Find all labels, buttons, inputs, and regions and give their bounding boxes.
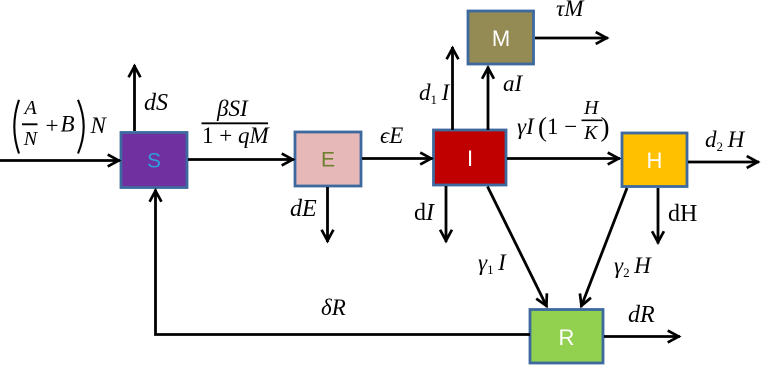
wire E to I arrow bbox=[362, 157, 433, 160]
svg-text:R: R bbox=[559, 325, 575, 350]
label beta S I over 1 + q M bbox=[202, 96, 271, 148]
svg-text:H: H bbox=[583, 97, 600, 119]
svg-text:γ1 I: γ1 I bbox=[478, 250, 507, 277]
wire gamma2 H diagonal arrow from H to R bbox=[581, 188, 627, 307]
svg-text:S: S bbox=[147, 150, 161, 173]
svg-text:τM: τM bbox=[556, 0, 585, 21]
svg-text:dH: dH bbox=[668, 201, 697, 227]
wire aI up arrow from I to M bbox=[487, 67, 490, 131]
wire tauM arrow from M bbox=[535, 37, 608, 40]
svg-text:γ2 H: γ2 H bbox=[614, 253, 652, 280]
svg-text:K: K bbox=[583, 122, 599, 144]
svg-text:δR: δR bbox=[321, 295, 346, 320]
wire S to E arrow bbox=[188, 158, 294, 161]
svg-text:γI: γI bbox=[517, 114, 535, 139]
svg-text:N: N bbox=[23, 128, 39, 150]
svg-text:E: E bbox=[321, 149, 335, 172]
svg-text:M: M bbox=[492, 26, 510, 51]
box M bbox=[468, 11, 534, 64]
svg-text:(: ( bbox=[538, 112, 547, 142]
wire input arrow into S bbox=[0, 159, 120, 162]
svg-text:H: H bbox=[647, 148, 663, 173]
label gamma I (1 - H/K) bbox=[517, 97, 610, 144]
wire gamma1 I diagonal arrow from I to R bbox=[488, 187, 548, 308]
wire deltaR return path from R to S bbox=[156, 190, 531, 335]
svg-text:dS: dS bbox=[144, 90, 168, 116]
svg-text:dE: dE bbox=[290, 196, 317, 222]
label recruitment term (A/N + B)N bbox=[14, 97, 107, 154]
svg-text:aI: aI bbox=[503, 71, 524, 96]
wire dI down arrow from I bbox=[445, 186, 448, 242]
svg-text:d1 I: d1 I bbox=[419, 80, 451, 107]
svg-text:βSI: βSI bbox=[216, 96, 249, 121]
svg-text:N: N bbox=[90, 113, 108, 138]
svg-text:1 + qM: 1 + qM bbox=[202, 123, 270, 148]
svg-text:dR: dR bbox=[628, 302, 655, 328]
box H bbox=[622, 133, 687, 187]
svg-text:ϵE: ϵE bbox=[380, 123, 403, 148]
wire dS up arrow from S bbox=[133, 65, 136, 131]
svg-text:): ) bbox=[601, 112, 610, 142]
wire dE down arrow from E bbox=[326, 187, 329, 242]
box E bbox=[295, 132, 361, 186]
svg-text:A: A bbox=[23, 97, 38, 119]
svg-text:I: I bbox=[467, 146, 473, 171]
wire d1I up arrow from I bbox=[451, 47, 454, 130]
box R bbox=[530, 310, 603, 364]
svg-text:dI: dI bbox=[414, 200, 435, 226]
wire dR arrow from R bbox=[604, 335, 680, 338]
box S bbox=[121, 133, 187, 188]
svg-text:1 −: 1 − bbox=[547, 114, 577, 139]
wire dH down arrow from H bbox=[657, 188, 660, 244]
svg-text:+: + bbox=[46, 113, 59, 138]
svg-text:d2 H: d2 H bbox=[705, 127, 746, 154]
wire d2H arrow from H bbox=[688, 161, 759, 164]
box I bbox=[434, 130, 507, 185]
svg-text:B: B bbox=[61, 112, 75, 137]
wire I to H arrow bbox=[507, 157, 620, 160]
